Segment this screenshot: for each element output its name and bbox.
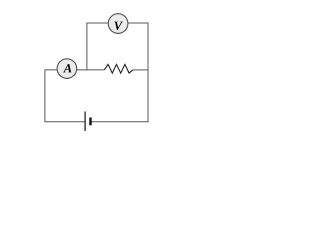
wire: bottom left segment to battery	[44, 121, 85, 123]
wire: left vertical side with corner to ammeter	[45, 70, 57, 122]
wire: voltmeter to top-right corner	[128, 22, 148, 24]
wire: riser from A-resistor node up to voltmeter branch	[87, 23, 108, 70]
battery B1: short thick plate	[89, 118, 91, 126]
wire: right vertical side	[147, 23, 149, 122]
voltmeter V: meter circle	[108, 14, 128, 34]
voltmeter V: label glyph	[114, 22, 122, 30]
wire: ammeter to resistor segment	[77, 69, 104, 71]
resistor R1: zigzag element	[104, 64, 133, 73]
wire: bottom right segment from battery	[92, 121, 149, 123]
wire: resistor to right vertical segment	[133, 69, 148, 71]
ammeter A: meter circle	[57, 59, 77, 79]
battery B1: long thin plate	[84, 112, 86, 132]
ammeter A: label glyph	[63, 64, 72, 72]
